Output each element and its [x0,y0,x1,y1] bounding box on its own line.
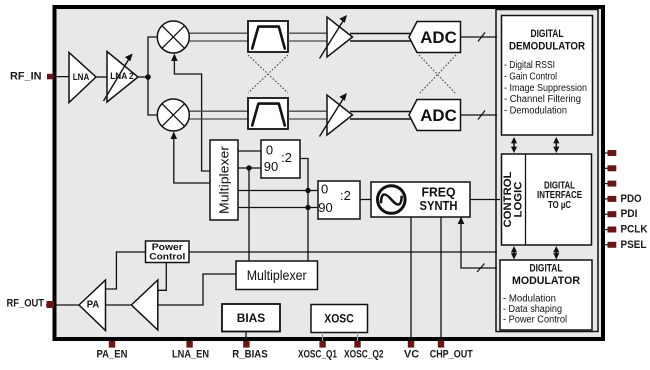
pin PSEL [603,239,647,251]
wire power control to control logic [189,251,497,253]
wire freq synth to VC pin [410,217,412,341]
pin CHP_OUT [430,341,473,361]
wire divider2 to freq synth [360,199,371,201]
svg-text:- Data shaping: - Data shaping [503,304,562,315]
svg-text:RF_OUT: RF_OUT [7,298,45,310]
svg-text:LNA 2: LNA 2 [110,71,134,81]
wire power control to PA input [106,252,146,289]
frequency synthesizer U-FS [371,182,470,217]
svg-text:PSEL: PSEL [621,239,647,251]
pin stub right 2 [603,165,616,171]
svg-text:VC: VC [404,349,419,361]
svg-text:ADC: ADC [420,106,457,125]
svg-text:DIGITAL: DIGITAL [530,263,563,275]
multiplexer 2 (TX path) [236,261,318,290]
digital section outer box [496,10,598,332]
svg-text:- Power Control: - Power Control [503,315,567,326]
wire LO to mixer Q with arrow [171,132,211,184]
wire VGA I to ADC I (differential pair) [350,34,413,42]
ADC Q [409,100,461,131]
bus arrow control logic to modulator left [511,246,517,260]
node at divider2 input 90 [305,205,310,210]
pin LNA_EN [172,341,209,361]
pin RF_OUT [7,298,55,310]
power control box [146,241,190,263]
svg-text:- Digital RSSI: - Digital RSSI [504,60,555,71]
VGA I [320,15,353,59]
svg-text:PCLK: PCLK [621,224,648,236]
wire LNA to LNA2 [96,76,107,78]
svg-text:LNA: LNA [73,72,90,82]
wire LNA2 output to node [138,76,148,78]
wire node to mixer I [148,37,157,77]
svg-text:90: 90 [264,159,278,174]
bandpass filter I [248,21,288,52]
driver amplifier [131,280,157,330]
svg-text:CHP_OUT: CHP_OUT [430,349,473,361]
wire multiplexer to divider1 input 90 [238,167,261,169]
wire mixer I to filter I (differential pair) [190,33,249,41]
multiplexer (vertical, LO select) [210,140,238,220]
svg-text:RF_IN: RF_IN [10,71,42,83]
power amplifier PA [79,280,106,331]
svg-text:Multiplexer: Multiplexer [247,268,307,283]
wire XOSC to XOSC_Q1 pin [322,333,324,342]
VGA Q [320,93,353,137]
divider 2 (0/90 :2) [318,181,360,219]
pin PDI [603,208,638,220]
wire ADC Q to demodulator with bus slash [461,111,498,120]
svg-text:LNA_EN: LNA_EN [172,349,209,361]
bandpass filter Q [248,98,288,129]
dashed cross between filter paths [248,55,288,93]
wire freq synth to CHP_OUT pin [440,217,442,341]
svg-text:0: 0 [321,182,328,197]
wire power control to driver amp input [158,263,166,291]
node at divider2 input 0 [305,188,310,193]
ADC I [409,22,461,53]
amplifier LNA 2 [104,52,139,103]
divider 1 (0/90 :2) [261,140,300,178]
wire multiplexer 2 to driver amp [158,274,236,305]
wire freq synth to control logic [470,199,500,201]
wire multiplexer to divider2 input 0 [238,190,318,192]
pin PDO [603,193,642,205]
svg-text::2: :2 [340,188,351,203]
svg-text:LOGIC: LOGIC [513,181,525,217]
node splitting to mixers [145,74,151,80]
wire XOSC to XOSC_Q2 pin [357,333,359,342]
svg-text:Control: Control [149,252,185,263]
digital modulator block [500,260,592,330]
svg-text:MODULATOR: MODULATOR [512,275,580,287]
bus arrow demodulator to digital interface right [553,137,559,153]
node on 90 wire [246,165,251,170]
svg-text:XOSC: XOSC [324,312,354,326]
wire multiplexer to divider2 input 90 [238,207,318,209]
svg-text::2: :2 [281,150,292,165]
svg-text:Multiplexer: Multiplexer [217,145,232,214]
wire multiplexer to divider1 input 0 [238,150,261,152]
wire filter Q to VGA Q (differential pair) [288,111,327,119]
wire filter I to VGA I (differential pair) [288,33,327,41]
svg-text:- Image Suppression: - Image Suppression [504,83,587,94]
svg-text:PA_EN: PA_EN [97,349,128,361]
svg-text:90: 90 [318,200,332,215]
mixer Q [157,99,189,131]
svg-text:PA: PA [87,299,100,310]
control logic and digital interface block [502,154,592,245]
pin stub right 3 [603,181,616,187]
svg-text:XOSC_Q1: XOSC_Q1 [298,349,337,361]
amplifier LNA [69,53,96,103]
wire driver amp to PA [106,304,132,306]
wire node down to multiplexer 2 [248,168,250,261]
pin XOSC_Q2 [344,341,384,361]
svg-text:PDO: PDO [621,193,642,205]
wire RF_IN to LNA [49,76,69,78]
wire mixer Q to filter Q (differential pair) [190,111,249,119]
digital demodulator block [502,16,593,136]
pin XOSC_Q1 [298,341,337,361]
svg-text:- Channel Filtering: - Channel Filtering [504,94,581,105]
svg-text:SYNTH: SYNTH [420,198,458,213]
svg-text:- Modulation: - Modulation [503,294,556,305]
bus arrow digital interface to modulator right [553,246,559,260]
wire BIAS to R_BIAS pin [245,332,247,342]
pin PCLK [603,224,648,236]
svg-text:ADC: ADC [420,28,457,47]
svg-text:R_BIAS: R_BIAS [232,349,268,361]
wire divider1 output down to divider2 inputs [300,159,308,262]
svg-text:TO µC: TO µC [548,200,571,211]
wire modulator to freq synth with arrow and bus slash [458,217,497,273]
svg-text:BIAS: BIAS [237,311,266,325]
mixer I [157,21,189,53]
pin VC [404,341,419,361]
bus arrow demodulator to control logic left [511,137,517,153]
svg-text:DIGITAL: DIGITAL [531,28,564,40]
chip body [55,7,604,339]
wire PA to RF_OUT [46,304,79,306]
wire ADC I to demodulator with bus slash [461,33,498,42]
svg-text:0: 0 [266,142,273,157]
svg-text:PDI: PDI [621,208,638,220]
svg-text:XOSC_Q2: XOSC_Q2 [344,349,384,361]
pin R_BIAS [232,341,268,361]
wire LO to mixer I with arrow [171,54,210,172]
wire VGA Q to ADC Q (differential pair) [350,112,413,120]
svg-text:- Gain Control: - Gain Control [504,72,557,83]
svg-text:- Demodulation: - Demodulation [504,106,567,117]
XOSC block [311,305,368,333]
dashed cross between ADC paths [419,55,456,94]
pin stub right 1 [603,150,616,156]
wire node to mixer Q [148,77,157,115]
svg-text:DEMODULATOR: DEMODULATOR [509,41,585,53]
pin PA_EN [97,341,128,361]
pin RF_IN [10,71,54,83]
BIAS block [222,304,280,332]
